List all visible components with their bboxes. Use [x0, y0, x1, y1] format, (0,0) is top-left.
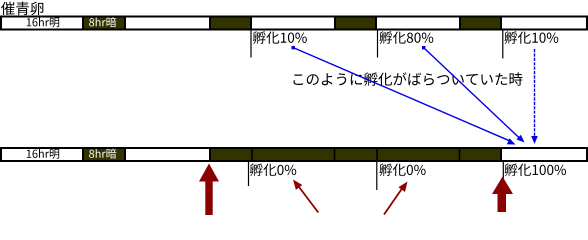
blue dashed vertical arrow from third 10% label: [531, 49, 538, 144]
bottom bar 8hr dark box with label: [83, 148, 125, 161]
label hatch 80%: [379, 31, 433, 44]
top bar dark period 4: [460, 17, 501, 30]
label hatch 0% (second): [379, 163, 425, 176]
blue arrow from 80% label to synchronized hatch point: [422, 46, 525, 143]
bottom bar divider: [334, 147, 336, 161]
bottom bar divider at 24h: [251, 147, 253, 161]
big maroon up arrow at start of continuous dark: [199, 164, 219, 216]
bottom photoperiod bar (condition 2) outline: [1, 148, 587, 161]
label hatch 0% (first): [250, 163, 296, 176]
label hatch 10% (third): [504, 31, 558, 44]
bottom bar divider: [376, 147, 378, 161]
top bar dark period 3: [335, 17, 376, 30]
blue arrow from first 10% label to synchronized hatch point: [292, 46, 516, 145]
bottom bar 16hr light label: [27, 149, 59, 159]
top bar 8hr dark box with label: [83, 17, 125, 30]
label hatch 10% (first): [253, 31, 307, 44]
leader line for hatch 80% label: [377, 30, 379, 58]
thin maroon arrow pointing up-right to second 0%: [384, 182, 408, 215]
label hatch 100%: [505, 163, 566, 176]
leader line for first hatch 0% label: [248, 161, 250, 186]
top bar dark period 2: [210, 17, 251, 30]
thin maroon arrow pointing up-left to first 0%: [293, 180, 318, 213]
top bar 16hr light label: [27, 18, 59, 28]
leader line for hatch 10% (third) label: [502, 30, 504, 59]
bottom bar divider: [459, 147, 461, 161]
leader line for hatch 100% label: [502, 161, 504, 179]
caption: when hatching was scattered like this: [294, 72, 523, 86]
big maroon up arrow at hatch point: [492, 177, 513, 213]
title: incubated eggs heading: [1, 2, 43, 16]
leader line for first hatch 10% label: [250, 30, 252, 58]
top photoperiod bar (condition 1) outline: [1, 17, 587, 30]
leader line for second hatch 0% label: [376, 161, 378, 190]
bottom bar continuous dark block: [210, 148, 501, 161]
